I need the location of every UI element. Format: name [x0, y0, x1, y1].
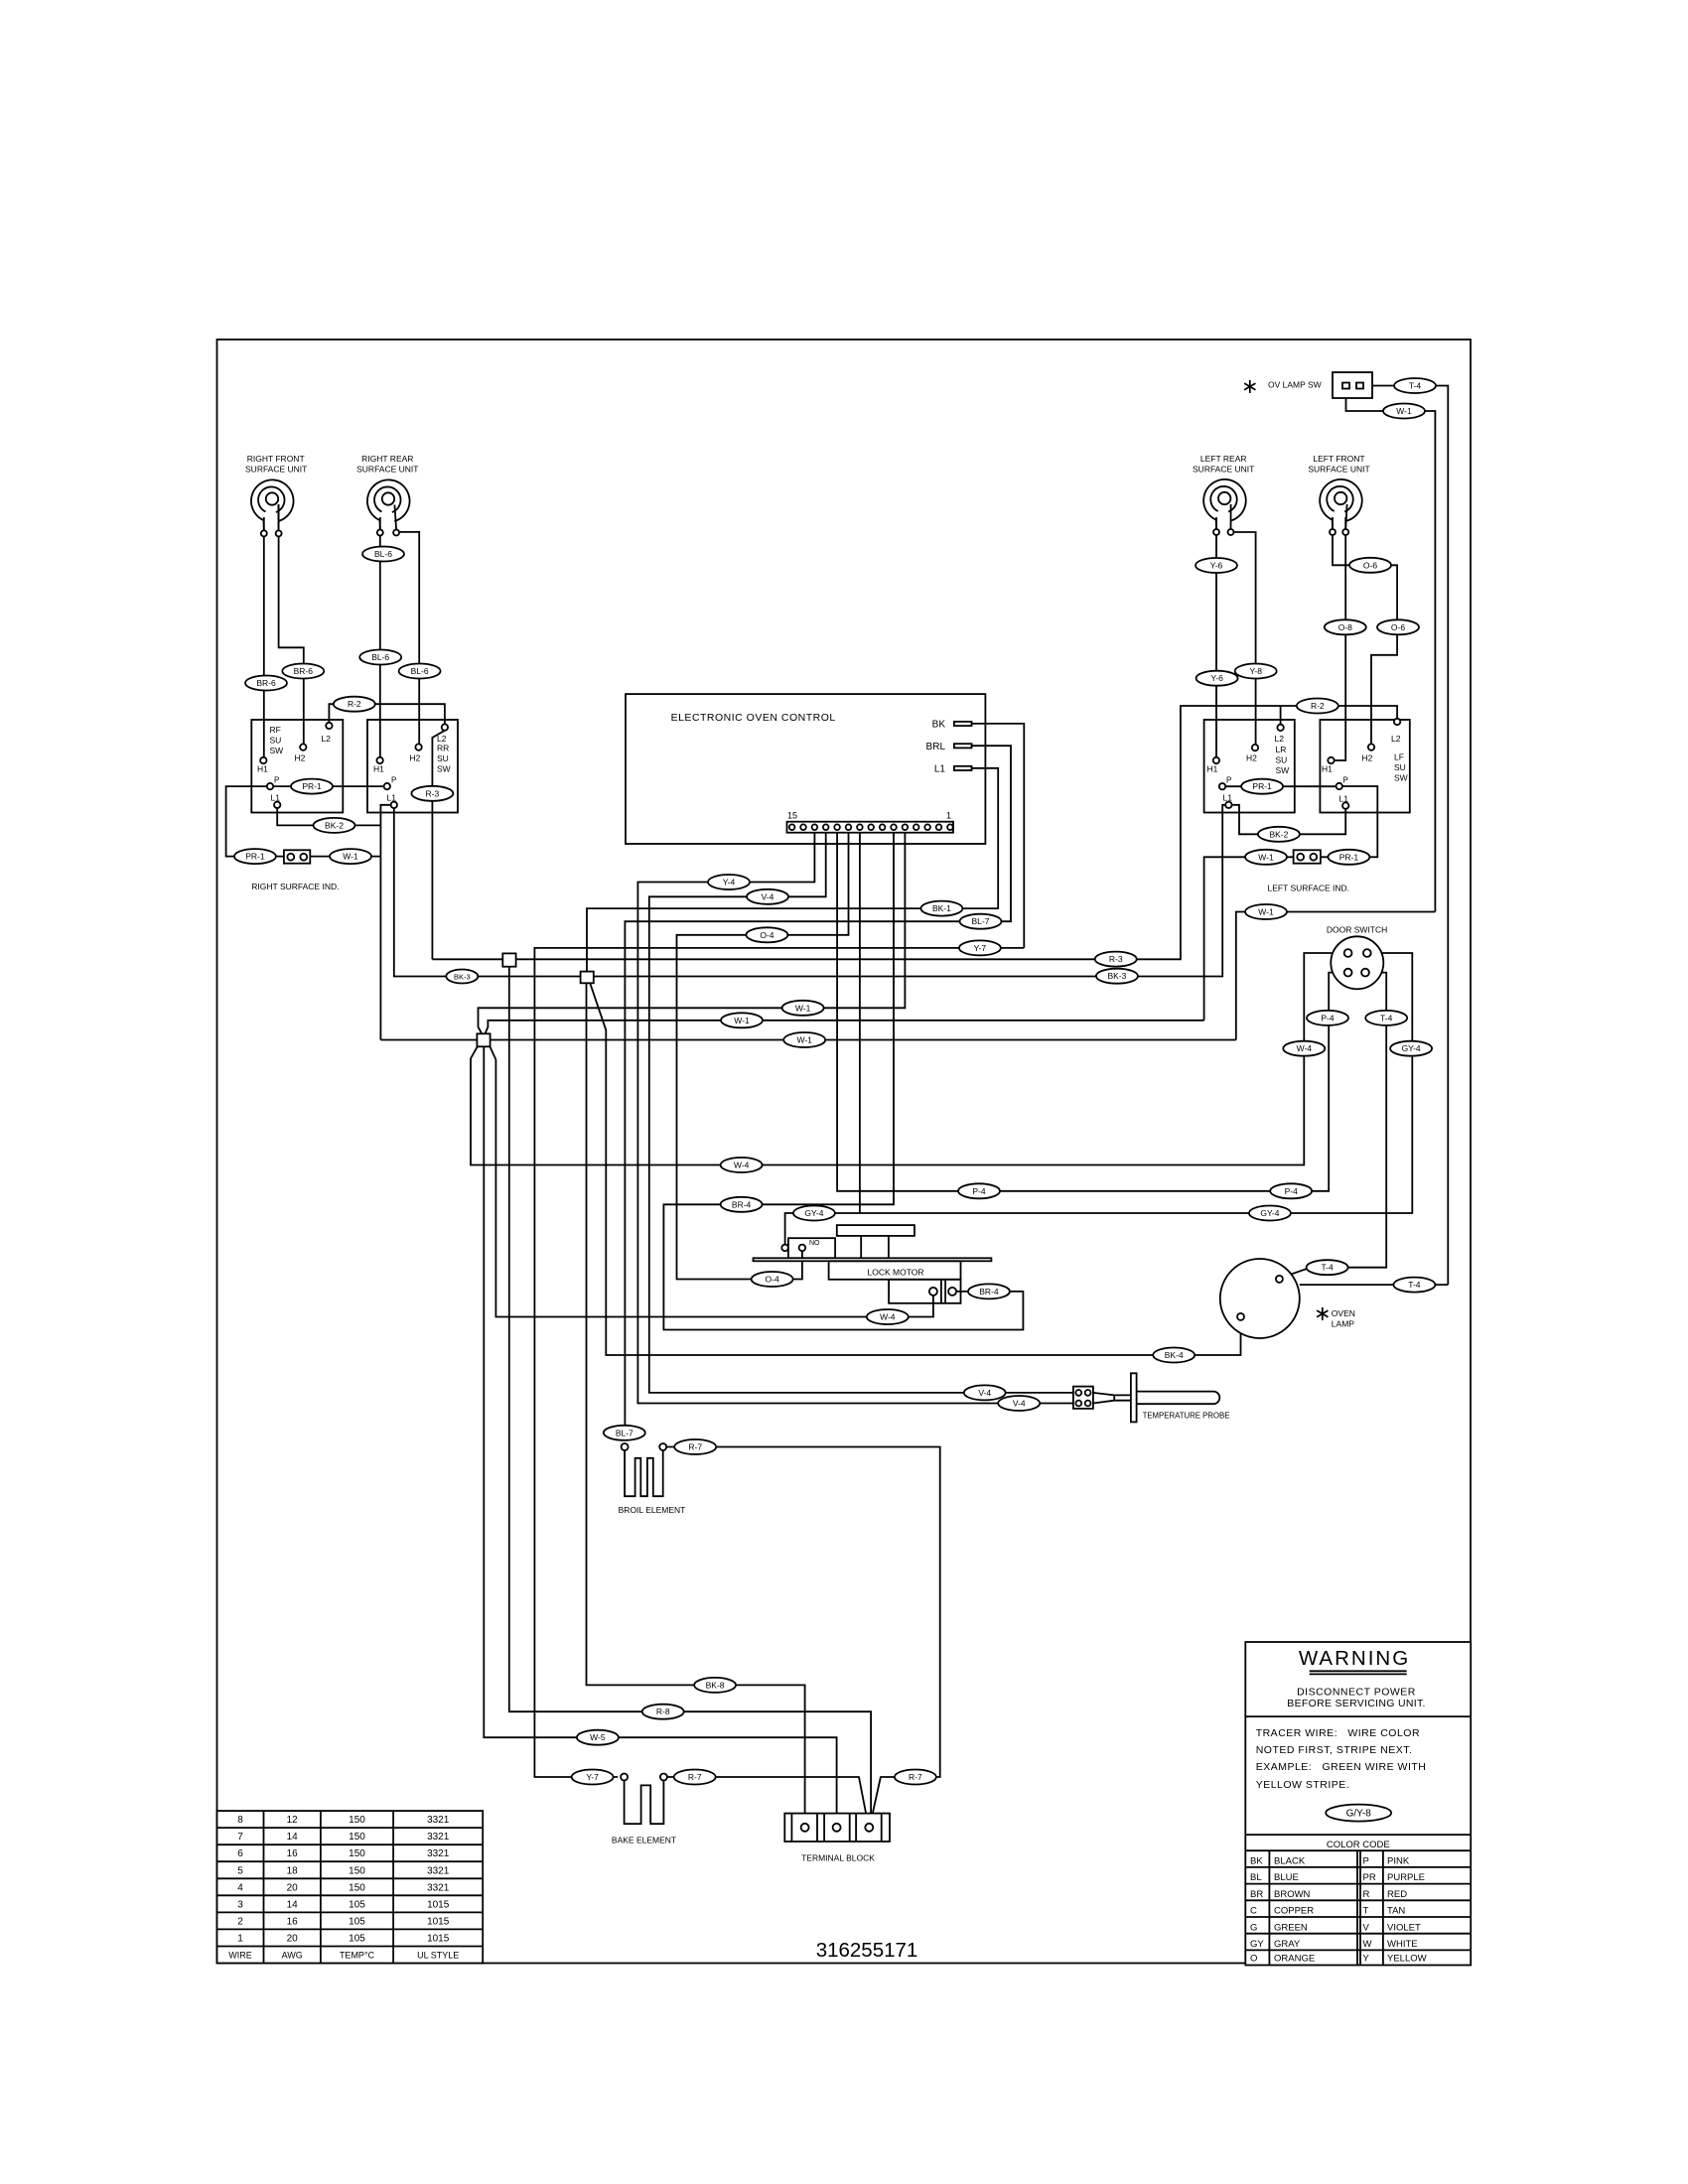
- svg-text:T-4: T-4: [1409, 381, 1422, 391]
- svg-text:TEMPERATURE PROBE: TEMPERATURE PROBE: [1143, 1412, 1230, 1421]
- svg-text:W-1: W-1: [343, 852, 358, 862]
- wire LR coil left lead to H1: [1215, 517, 1217, 757]
- svg-text:GY-4: GY-4: [1260, 1208, 1279, 1218]
- svg-text:P-4: P-4: [1285, 1186, 1299, 1196]
- svg-text:OV LAMP SW: OV LAMP SW: [1268, 380, 1322, 390]
- terminal block: [784, 1814, 890, 1842]
- wire label oval BL-7 b: [604, 1426, 645, 1440]
- svg-text:UL STYLE: UL STYLE: [417, 1951, 459, 1961]
- svg-text:1: 1: [237, 1934, 243, 1945]
- wire label oval V-4 d: [998, 1396, 1040, 1411]
- svg-text:BK-1: BK-1: [932, 903, 951, 913]
- wire label oval T-4 c: [1307, 1260, 1348, 1275]
- svg-text:P: P: [1343, 776, 1348, 785]
- lock motor cam: [837, 1225, 914, 1236]
- wire R-2 right: RF L2 to RR L2: [329, 704, 445, 724]
- border frame: [217, 340, 1472, 1964]
- svg-text:L1: L1: [271, 793, 281, 803]
- wire label oval O-8: [1325, 619, 1366, 634]
- svg-text:20: 20: [287, 1882, 299, 1893]
- svg-text:O: O: [1250, 1954, 1257, 1965]
- bake element: [621, 1774, 667, 1825]
- wire BK-2 right: RF L1 to rail: [277, 808, 380, 825]
- svg-text:W-1: W-1: [795, 1003, 811, 1013]
- lock motor cam stem: [861, 1236, 889, 1258]
- svg-text:L1: L1: [1223, 793, 1233, 803]
- svg-text:BR-4: BR-4: [732, 1199, 752, 1209]
- svg-text:SW: SW: [437, 764, 451, 774]
- svg-text:SW: SW: [1276, 765, 1290, 775]
- wire RF coil right lead to H2: [279, 504, 304, 744]
- wire EOC BK pad to Y-7 run: [972, 724, 1025, 948]
- wire label oval W-1 a: [330, 849, 371, 864]
- wire label oval PR-1 d: [1328, 850, 1369, 865]
- door switch: [1331, 936, 1383, 989]
- svg-text:P: P: [274, 776, 279, 785]
- svg-text:SU: SU: [1394, 762, 1406, 772]
- wire label oval V-4 c: [964, 1385, 1006, 1400]
- svg-text:DOOR SWITCH: DOOR SWITCH: [1327, 925, 1387, 935]
- svg-text:O-6: O-6: [1363, 560, 1377, 570]
- svg-text:BK-2: BK-2: [1269, 829, 1288, 839]
- svg-text:SU: SU: [270, 736, 282, 746]
- svg-text:105: 105: [349, 1916, 365, 1927]
- svg-text:O-4: O-4: [766, 1275, 779, 1285]
- svg-text:V-4: V-4: [762, 891, 774, 901]
- svg-text:PR-1: PR-1: [1339, 852, 1359, 862]
- svg-text:Y-4: Y-4: [723, 878, 736, 887]
- svg-text:BK: BK: [1250, 1856, 1263, 1867]
- svg-text:Y-8: Y-8: [1249, 666, 1262, 676]
- wire label oval BL-7 a: [960, 914, 1002, 929]
- wire square1 horizontal R-3 run to left switches: [432, 958, 502, 960]
- svg-text:T-4: T-4: [1408, 1280, 1421, 1290]
- terminals RR switch: [376, 724, 448, 808]
- wire label oval BR-4 a: [721, 1197, 763, 1212]
- svg-text:R-7: R-7: [909, 1772, 922, 1782]
- svg-text:GY-4: GY-4: [1402, 1043, 1421, 1053]
- svg-text:H1: H1: [373, 764, 384, 774]
- switch box RF SU SW: [251, 720, 343, 813]
- svg-text:105: 105: [349, 1899, 365, 1910]
- svg-text:BL: BL: [1250, 1872, 1262, 1883]
- wire label oval R-7 b: [674, 1770, 716, 1785]
- svg-text:W-5: W-5: [590, 1732, 606, 1742]
- svg-text:YELLOW STRIPE.: YELLOW STRIPE.: [1256, 1779, 1350, 1791]
- wire label oval Y-6 a: [1196, 558, 1237, 573]
- wire R-3 long run square1 to LR L2: [516, 706, 1398, 959]
- svg-text:ELECTRONIC OVEN CONTROL: ELECTRONIC OVEN CONTROL: [671, 712, 836, 724]
- wire label oval PR-1 c: [1241, 779, 1283, 794]
- svg-text:LF: LF: [1394, 752, 1404, 762]
- wire EOC pin13 V-4 to probe lower: [637, 833, 1073, 1404]
- wire LF coil right lead O-8 to H1: [1335, 517, 1345, 760]
- svg-text:C: C: [1250, 1906, 1257, 1917]
- svg-text:H2: H2: [295, 753, 306, 763]
- wire label oval Y-8: [1235, 664, 1277, 679]
- wire RF P to right surface indicator PR-1: [226, 786, 284, 857]
- svg-text:R-7: R-7: [688, 1772, 702, 1782]
- svg-text:16: 16: [287, 1916, 299, 1927]
- wire label oval GY-4 b: [793, 1206, 835, 1221]
- svg-text:150: 150: [349, 1848, 365, 1859]
- svg-text:EXAMPLE: GREEN WIRE WITH: EXAMPLE: GREEN WIRE WITH: [1256, 1761, 1427, 1773]
- wire RR L1 stub and W-1 rail down: [380, 805, 390, 1040]
- lock motor assembly: [754, 1225, 992, 1303]
- svg-text:14: 14: [287, 1832, 299, 1843]
- svg-text:R-3: R-3: [426, 788, 440, 798]
- lock motor NO switch box: [788, 1238, 835, 1258]
- svg-text:316255171: 316255171: [816, 1939, 918, 1962]
- wire label oval T-4 d: [1393, 1278, 1435, 1293]
- svg-text:R-3: R-3: [1109, 954, 1123, 964]
- svg-text:BL-7: BL-7: [972, 916, 990, 926]
- svg-text:SW: SW: [1394, 773, 1408, 783]
- svg-text:∗: ∗: [1314, 1302, 1332, 1325]
- svg-text:O-8: O-8: [1338, 622, 1352, 632]
- wire RR coil left lead to H1: [379, 517, 381, 757]
- svg-text:W: W: [1363, 1939, 1372, 1950]
- electronic oven control box: [626, 694, 985, 844]
- svg-text:GRAY: GRAY: [1274, 1939, 1301, 1950]
- svg-text:V: V: [1363, 1922, 1370, 1933]
- svg-text:1015: 1015: [427, 1916, 450, 1927]
- EOC BK pad: [954, 722, 972, 726]
- wire LF coil left lead O-6 to H2: [1333, 517, 1397, 744]
- wire W-1 line square3 to EOC pin5: [479, 833, 906, 1034]
- svg-text:2: 2: [237, 1916, 243, 1927]
- wire gauge table: [217, 1811, 484, 1963]
- svg-text:P: P: [391, 776, 396, 785]
- svg-text:WHITE: WHITE: [1387, 1939, 1418, 1950]
- svg-text:W-1: W-1: [734, 1016, 750, 1025]
- warning box: [1245, 1642, 1471, 1966]
- svg-text:WARNING: WARNING: [1299, 1647, 1410, 1670]
- lock motor NO switch contacts: [781, 1245, 788, 1252]
- svg-text:W-1: W-1: [1396, 406, 1412, 416]
- svg-text:7: 7: [237, 1832, 243, 1843]
- svg-text:H1: H1: [1207, 764, 1218, 774]
- svg-text:150: 150: [349, 1882, 365, 1893]
- wire label oval W-1 d: [1245, 904, 1287, 919]
- svg-text:150: 150: [349, 1832, 365, 1843]
- svg-text:VIOLET: VIOLET: [1387, 1922, 1421, 1933]
- svg-text:LEFT REAR: LEFT REAR: [1200, 454, 1247, 464]
- svg-text:BAKE ELEMENT: BAKE ELEMENT: [612, 1836, 676, 1845]
- wire square2 down BK-8 to terminal block pin1: [587, 983, 805, 1824]
- wire BK-2 left: LR L1 stub to LF L1: [1232, 805, 1346, 835]
- surface unit coil RF: [251, 479, 294, 536]
- svg-text:SURFACE UNIT: SURFACE UNIT: [356, 465, 418, 475]
- svg-text:BK-3: BK-3: [1107, 971, 1126, 981]
- svg-text:YELLOW: YELLOW: [1387, 1954, 1427, 1965]
- wire square3 down W-5 to terminal block pin2: [484, 1046, 836, 1824]
- wire label oval PR-1 a: [291, 779, 333, 794]
- wire label oval R-2 right: [334, 697, 375, 712]
- svg-text:P-4: P-4: [1321, 1013, 1335, 1023]
- svg-text:RIGHT FRONT: RIGHT FRONT: [247, 454, 305, 464]
- OV lamp switch box: [1333, 372, 1372, 398]
- svg-text:3321: 3321: [427, 1865, 450, 1876]
- wire RF coil left lead to H1: [263, 517, 265, 757]
- svg-text:16: 16: [287, 1848, 299, 1859]
- lock motor terminals: [929, 1288, 937, 1296]
- svg-text:T: T: [1363, 1906, 1369, 1917]
- svg-text:150: 150: [349, 1815, 365, 1826]
- wire label oval O-6 b: [1377, 619, 1419, 634]
- svg-text:BLACK: BLACK: [1274, 1856, 1306, 1867]
- svg-text:Y-6: Y-6: [1210, 561, 1223, 571]
- wire EOC pin12 V-4 to probe upper: [649, 833, 1073, 1393]
- svg-text:WIRE: WIRE: [228, 1951, 252, 1961]
- switch box RR SU SW: [367, 720, 458, 813]
- wire label oval O-4 b: [752, 1272, 793, 1287]
- wire label oval W-1 c: [1245, 850, 1287, 865]
- EOC BRL pad: [954, 744, 972, 748]
- svg-text:BROIL ELEMENT: BROIL ELEMENT: [619, 1505, 686, 1515]
- svg-text:R-7: R-7: [688, 1442, 702, 1452]
- wire label oval GY-4 a: [1390, 1041, 1432, 1056]
- svg-text:T-4: T-4: [1380, 1013, 1393, 1023]
- wire label oval Y-7 b: [572, 1770, 614, 1785]
- svg-text:TRACER WIRE: WIRE COLOR: TRACER WIRE: WIRE COLOR: [1256, 1727, 1420, 1739]
- wire W-1 run door area to left surface path: [1236, 912, 1436, 1040]
- svg-text:LAMP: LAMP: [1332, 1319, 1354, 1329]
- wire label oval BK-2 right: [314, 818, 355, 833]
- svg-text:TEMP°C: TEMP°C: [340, 1951, 375, 1961]
- left surface indicator: [1294, 850, 1321, 863]
- svg-text:PR: PR: [1363, 1872, 1376, 1883]
- junction square 2: [581, 972, 594, 984]
- lock motor lower box: [889, 1280, 960, 1303]
- wire OV lamp switch W-1 down and right: [1346, 389, 1436, 912]
- svg-text:18: 18: [287, 1865, 299, 1876]
- svg-text:L2: L2: [1275, 734, 1285, 744]
- svg-text:G: G: [1250, 1922, 1257, 1933]
- svg-text:R-8: R-8: [656, 1706, 670, 1716]
- svg-text:BR-4: BR-4: [979, 1287, 999, 1297]
- svg-text:RIGHT REAR: RIGHT REAR: [361, 454, 413, 464]
- wire Y-7 run to bake element: [534, 948, 1024, 1777]
- wire EOC pin9 GY-4 vertical: [859, 833, 861, 1213]
- wire label oval GY-4 c: [1249, 1206, 1291, 1221]
- wire EOC pin10 O-4 to lock NO switch: [677, 833, 849, 1280]
- surface unit coil LR: [1203, 479, 1246, 535]
- wire label oval R-2 left: [1297, 699, 1338, 714]
- svg-text:3: 3: [237, 1899, 243, 1910]
- svg-text:L1: L1: [1339, 794, 1349, 804]
- wire label oval W-4 b: [721, 1158, 763, 1172]
- wire label oval BK-3 a: [446, 970, 478, 984]
- right surface indicator: [284, 850, 310, 863]
- svg-text:RIGHT SURFACE IND.: RIGHT SURFACE IND.: [251, 882, 339, 891]
- svg-text:COPPER: COPPER: [1274, 1906, 1314, 1917]
- svg-text:R: R: [1363, 1889, 1370, 1900]
- wire label oval BR-6 a: [245, 676, 287, 691]
- svg-text:LR: LR: [1276, 745, 1287, 754]
- svg-text:L1: L1: [387, 793, 397, 803]
- svg-text:AWG: AWG: [282, 1951, 303, 1961]
- svg-text:PINK: PINK: [1387, 1856, 1410, 1867]
- wire label oval BK-4: [1153, 1348, 1195, 1363]
- svg-text:T-4: T-4: [1321, 1263, 1334, 1273]
- svg-text:BK-4: BK-4: [1165, 1350, 1184, 1360]
- svg-text:SURFACE UNIT: SURFACE UNIT: [1193, 465, 1254, 475]
- svg-text:1015: 1015: [427, 1899, 450, 1910]
- svg-text:LEFT SURFACE IND.: LEFT SURFACE IND.: [1268, 884, 1350, 893]
- svg-text:P-4: P-4: [972, 1186, 986, 1196]
- wire PR-1 RF P to RR P: [273, 785, 383, 787]
- wire label oval V-4 b: [747, 889, 788, 904]
- svg-text:GY-4: GY-4: [804, 1208, 823, 1218]
- svg-text:Y: Y: [1363, 1954, 1370, 1965]
- svg-text:L1: L1: [934, 764, 946, 775]
- svg-text:BRL: BRL: [926, 742, 946, 752]
- lock motor base bar: [754, 1258, 992, 1261]
- svg-text:H2: H2: [1362, 753, 1373, 763]
- wire right surface indicator to W-1 rail: [310, 856, 380, 858]
- svg-text:RR: RR: [437, 744, 449, 753]
- wire label oval O-4 a: [746, 927, 787, 942]
- svg-text:H1: H1: [1322, 764, 1333, 774]
- wire W-1 line to square3 from left surface ind: [486, 1021, 1204, 1034]
- wire label oval BK-2 left: [1258, 827, 1300, 842]
- junction square 1: [502, 953, 515, 966]
- svg-text:NO: NO: [809, 1240, 820, 1247]
- wire label oval Y-7 a: [959, 940, 1001, 955]
- EOC 15-pin connector strip: [787, 822, 954, 833]
- svg-text:105: 105: [349, 1934, 365, 1945]
- svg-text:PR-1: PR-1: [302, 781, 322, 791]
- wire RR coil right lead to H2: [399, 532, 420, 745]
- wire label oval V-4 a: [708, 875, 750, 889]
- wire label oval O-6 a: [1349, 558, 1391, 573]
- broil element: [622, 1443, 667, 1496]
- wire label oval T-4 b: [1365, 1011, 1407, 1025]
- svg-text:4: 4: [237, 1882, 243, 1893]
- svg-text:∗: ∗: [1241, 375, 1259, 398]
- svg-text:LEFT FRONT: LEFT FRONT: [1313, 454, 1364, 464]
- wire label oval BK-3 b: [1096, 969, 1138, 984]
- svg-text:3321: 3321: [427, 1848, 450, 1859]
- svg-text:ORANGE: ORANGE: [1274, 1954, 1315, 1965]
- wire label oval W-4 c: [867, 1309, 909, 1324]
- svg-text:BK-3: BK-3: [454, 973, 471, 982]
- svg-text:BL-6: BL-6: [374, 549, 392, 559]
- svg-text:RED: RED: [1387, 1889, 1407, 1900]
- svg-text:BR: BR: [1250, 1889, 1263, 1900]
- wire PR-1 LR P to LF P: [1225, 785, 1336, 787]
- wire label oval W-1 e: [782, 1001, 824, 1016]
- svg-text:1: 1: [946, 811, 951, 821]
- wire oven lamp BK-4 to square2 diagonal: [590, 983, 1240, 1355]
- svg-text:BL-7: BL-7: [616, 1428, 633, 1437]
- wire EOC BRL pad to BL-7 run: [625, 746, 1011, 1440]
- svg-text:BROWN: BROWN: [1274, 1889, 1311, 1900]
- svg-text:150: 150: [349, 1865, 365, 1876]
- wire label oval BL-6 b: [359, 650, 401, 665]
- svg-text:SU: SU: [1276, 755, 1288, 765]
- wire label oval BK-8: [694, 1678, 736, 1693]
- svg-text:SURFACE UNIT: SURFACE UNIT: [1308, 465, 1369, 475]
- wire EOC pin11 P-4 to door switch: [837, 833, 1343, 1191]
- svg-text:PURPLE: PURPLE: [1387, 1872, 1425, 1883]
- svg-text:W-4: W-4: [1297, 1043, 1313, 1053]
- svg-text:R-2: R-2: [1311, 701, 1325, 711]
- svg-text:6: 6: [237, 1848, 243, 1859]
- svg-text:GREEN: GREEN: [1274, 1922, 1308, 1933]
- svg-text:BR-6: BR-6: [256, 678, 276, 688]
- svg-text:BLUE: BLUE: [1274, 1872, 1299, 1883]
- svg-text:BL-6: BL-6: [371, 652, 389, 662]
- wire square1 down R-8 to terminal block pin3: [509, 967, 871, 1814]
- wire broil element R-7 to terminal block pin3: [666, 1447, 940, 1825]
- svg-text:DISCONNECT POWER: DISCONNECT POWER: [1297, 1687, 1416, 1699]
- svg-text:SW: SW: [270, 746, 284, 755]
- svg-text:BR-6: BR-6: [294, 666, 314, 676]
- wire label oval BR-4 b: [968, 1284, 1010, 1298]
- svg-text:GY: GY: [1250, 1939, 1264, 1950]
- wire label oval R-7 c: [895, 1770, 936, 1785]
- wire label oval R-8: [642, 1705, 684, 1719]
- svg-text:PR-1: PR-1: [245, 852, 265, 862]
- svg-text:L2: L2: [322, 734, 332, 744]
- svg-text:Y-7: Y-7: [586, 1772, 599, 1782]
- svg-text:Y-7: Y-7: [974, 943, 987, 953]
- svg-text:V-4: V-4: [1013, 1399, 1026, 1409]
- wire label oval BL-6 c: [399, 664, 441, 679]
- wire label oval R-3 left: [1095, 952, 1137, 967]
- terminals LR switch: [1213, 725, 1284, 808]
- svg-text:W-1: W-1: [1258, 852, 1274, 862]
- EOC L1 pad: [954, 766, 972, 770]
- svg-text:TAN: TAN: [1387, 1906, 1405, 1917]
- svg-text:COLOR CODE: COLOR CODE: [1327, 1840, 1390, 1850]
- svg-text:L2: L2: [1391, 734, 1401, 744]
- svg-text:R-2: R-2: [348, 699, 361, 709]
- svg-text:P: P: [1363, 1856, 1369, 1867]
- svg-text:14: 14: [287, 1899, 299, 1910]
- wire label oval W-1 g: [783, 1032, 825, 1047]
- switch box LF SU SW: [1320, 720, 1409, 813]
- surface unit coil RR: [367, 479, 410, 535]
- wire label oval T-4 a: [1394, 378, 1436, 393]
- svg-text:5: 5: [237, 1865, 243, 1876]
- svg-text:O-6: O-6: [1391, 622, 1405, 632]
- svg-text:LOCK MOTOR: LOCK MOTOR: [868, 1267, 924, 1277]
- switch box LR SU SW: [1204, 720, 1295, 813]
- svg-text:W-1: W-1: [1258, 907, 1274, 917]
- svg-text:NOTED FIRST, STRIPE NEXT.: NOTED FIRST, STRIPE NEXT.: [1256, 1744, 1413, 1756]
- terminals RF switch: [260, 723, 333, 808]
- wire label oval P-4 a: [1307, 1011, 1348, 1025]
- wire label oval W-5: [577, 1730, 619, 1745]
- svg-text:H2: H2: [410, 753, 421, 763]
- svg-text:SURFACE UNIT: SURFACE UNIT: [245, 465, 307, 475]
- wire label oval R-3 right: [411, 786, 453, 801]
- wire door switch BR pin T-4 to oven lamp: [1282, 973, 1386, 1278]
- svg-text:RF: RF: [270, 725, 281, 735]
- wire LF P to left surface indicator PR-1: [1321, 786, 1377, 857]
- svg-text:PR-1: PR-1: [1252, 781, 1272, 791]
- lock motor body: [829, 1261, 961, 1280]
- svg-text:BK: BK: [932, 720, 946, 731]
- wire label oval P-4 b: [958, 1183, 1000, 1198]
- wire GY-4 run: [785, 953, 1413, 1245]
- wire R-2 left branch down to LR L2: [1280, 706, 1282, 725]
- svg-text:8: 8: [237, 1815, 243, 1826]
- wire label oval P-4 c: [1270, 1183, 1312, 1198]
